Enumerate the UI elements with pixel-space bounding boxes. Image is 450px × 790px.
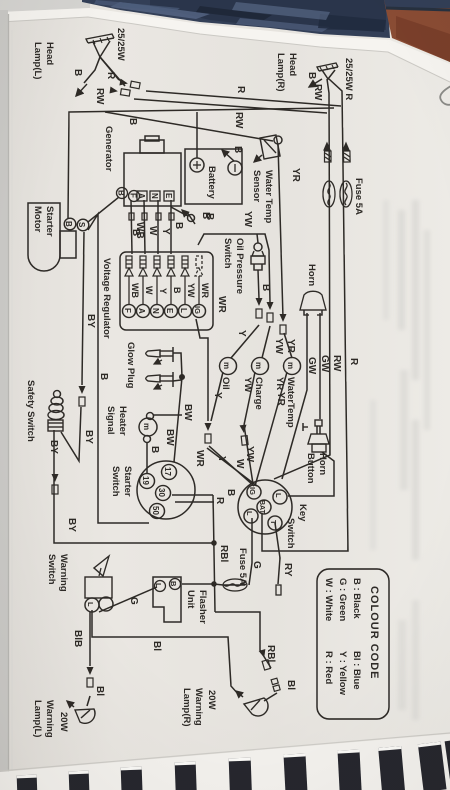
water temp lamp xyxy=(284,358,301,375)
terminal B flasher xyxy=(170,579,181,590)
horn xyxy=(300,291,326,315)
binder band bottom xyxy=(0,734,450,790)
water temp sensor xyxy=(260,135,282,159)
wire fuse G bottom to junction xyxy=(214,584,223,585)
head lamp L xyxy=(86,34,114,57)
connector pair RBl end xyxy=(271,678,280,691)
wire oil switch to oil lamp xyxy=(231,270,259,358)
wire heater signal B to starter switch 19 xyxy=(146,443,148,474)
connector on charge YW line xyxy=(267,302,274,322)
connector on head lamp L RW-lead xyxy=(109,87,130,97)
connector on WR line xyxy=(205,423,212,443)
wire YR sensor to water temp lamp xyxy=(278,144,292,358)
terminal E generator xyxy=(164,191,174,201)
terminal B generator xyxy=(117,188,128,199)
left page-under strip xyxy=(0,10,8,790)
generator xyxy=(124,136,181,206)
wire R rail from head lamps to key switch BAT xyxy=(262,79,348,551)
junction fuse G xyxy=(211,581,217,587)
wire BW heater signal branch xyxy=(153,414,182,416)
wire generator F to regulator xyxy=(131,200,132,254)
connector on BlB line xyxy=(87,667,94,687)
ground warning lamp R xyxy=(236,691,243,697)
warning lamp L xyxy=(75,709,95,723)
ground head lamp L xyxy=(76,84,87,96)
regulator element row xyxy=(125,256,203,276)
terminal B starter xyxy=(64,218,76,230)
top-left pale page edges xyxy=(0,0,90,12)
ground glow plug 2 xyxy=(154,385,162,389)
wire BW glow plugs to starter switch 17 xyxy=(173,353,182,462)
battery xyxy=(185,149,242,204)
wire oil switch stub xyxy=(257,234,258,243)
wire battery minus ground xyxy=(222,150,234,161)
ground tick horn button xyxy=(303,423,308,431)
wire oil lamp to key switch xyxy=(209,372,254,486)
fuse 5A on RW rail xyxy=(323,181,335,207)
wire head lamp R ground lead xyxy=(84,57,100,83)
wire generator E to regulator xyxy=(170,200,172,254)
terminal IG regulator xyxy=(193,305,206,318)
ground water temp sensor xyxy=(254,155,262,162)
terminal plus battery xyxy=(190,158,204,172)
wire head lamp L R-lead xyxy=(100,57,341,106)
terminal IG key switch xyxy=(247,485,261,499)
horn button xyxy=(308,420,329,452)
warning switch xyxy=(85,556,113,612)
wire WR regulator IG to key switch IG xyxy=(196,319,257,486)
terminal 19 starter switch xyxy=(140,474,155,489)
starter motor xyxy=(28,203,76,271)
connector on charge lamp key lead xyxy=(240,425,249,446)
inline connectors on RW rail xyxy=(324,143,331,162)
safety switch xyxy=(48,391,64,432)
terminal L regulator xyxy=(179,305,192,318)
terminal S starter xyxy=(77,219,89,231)
ground E terminal xyxy=(182,210,195,224)
wire generator A to regulator xyxy=(144,200,145,254)
wire Bl warning switch to warning lamp R xyxy=(92,610,239,695)
wire water temp lamp to key switch xyxy=(255,372,287,486)
ghost show-through right side xyxy=(370,200,430,720)
terminal T key switch xyxy=(268,516,282,530)
key switch xyxy=(238,480,292,534)
wire RW rail to key switch xyxy=(274,79,330,479)
wire flasher B to junction xyxy=(182,583,214,585)
wire charge lamp to key switch xyxy=(244,372,255,484)
page fore-edge white band xyxy=(0,8,450,82)
wire R and B pair starter 30 to key switch xyxy=(172,495,214,502)
wire generator B to starter S xyxy=(88,197,119,222)
wire RY from key switch T xyxy=(275,523,280,584)
terminal L flasher xyxy=(155,581,166,592)
page curl mark right xyxy=(440,86,450,105)
terminal F regulator xyxy=(123,305,136,318)
wire BlB warning switch to warning lamp L xyxy=(87,612,90,706)
glow plug 1 xyxy=(146,347,173,362)
wire E terminal ground branch xyxy=(171,207,188,216)
wire GW horn upper to horn button xyxy=(319,313,321,419)
connector on YR line xyxy=(280,314,287,334)
terminal 17 starter switch xyxy=(162,465,177,480)
terminal F generator xyxy=(129,191,140,202)
wire generator N to regulator xyxy=(157,200,159,254)
connector on oil feed line xyxy=(256,298,263,318)
inline connectors on R rail xyxy=(343,143,350,162)
wire RBl to warning lamp R xyxy=(215,612,277,701)
heater signal indicator xyxy=(139,413,157,443)
terminal N generator xyxy=(150,191,160,201)
terminal A regulator xyxy=(137,305,150,318)
terminal A generator xyxy=(137,191,147,201)
wire RW main feed to starter B xyxy=(68,108,334,218)
fuse 5A key circuit xyxy=(223,579,247,591)
terminal BAT key switch xyxy=(257,500,271,514)
warning lamp R xyxy=(244,698,268,716)
ground warning lamp L xyxy=(67,701,74,707)
fuse 5A on R rail xyxy=(340,181,352,207)
junction RBl xyxy=(211,540,217,546)
terminal L1 key switch xyxy=(273,490,287,504)
junction glow plugs xyxy=(179,374,185,380)
wire charge YW from regulator xyxy=(198,234,270,358)
connector on BY safety line xyxy=(52,474,59,494)
terminal 50 starter switch xyxy=(150,504,165,519)
regulator internal links xyxy=(129,276,199,304)
wire starter S to starter switch 50 xyxy=(88,214,149,523)
terminal minus battery xyxy=(228,161,242,175)
denim fabric top xyxy=(82,0,450,38)
wire BY safety switch to RBl junction xyxy=(54,430,214,543)
connector on head lamp L R-lead xyxy=(119,79,140,90)
wire RBl junction row xyxy=(213,495,215,612)
charge lamp xyxy=(252,358,269,375)
wire horn button loop to key switch L1 xyxy=(288,452,334,496)
wire to water temp sensor xyxy=(105,112,273,141)
connector RY dangling xyxy=(276,585,281,595)
wire G warning switch to flasher L xyxy=(99,587,157,612)
terminal N regulator xyxy=(151,305,164,318)
flasher unit xyxy=(153,577,181,622)
ground glow plug 1 xyxy=(154,360,162,364)
wire fuse G to key switch L2 xyxy=(223,518,252,585)
oil pressure switch xyxy=(251,243,265,270)
oil lamp xyxy=(220,358,237,375)
terminal E regulator xyxy=(165,305,178,318)
starter switch xyxy=(137,461,195,519)
voltage regulator xyxy=(120,252,213,330)
glow plug 2 xyxy=(146,372,173,387)
colour code box xyxy=(317,569,389,719)
ground head lamp R xyxy=(309,79,322,87)
connector on RBl lamp lead xyxy=(259,649,271,670)
connector squares on generator wires xyxy=(129,213,174,220)
terminal L2 key switch xyxy=(244,509,258,523)
wire head lamp L RW-lead xyxy=(100,57,327,113)
wire GW horn lower to key switch L1 xyxy=(282,313,307,479)
terminal 30 starter switch xyxy=(156,486,171,501)
wire BY starter S to safety switch xyxy=(61,232,84,461)
connector on BY line at S xyxy=(79,386,86,406)
brown book cover wedge top-right xyxy=(384,0,450,62)
head lamp R xyxy=(317,63,338,79)
wire battery plus stub xyxy=(196,112,198,158)
